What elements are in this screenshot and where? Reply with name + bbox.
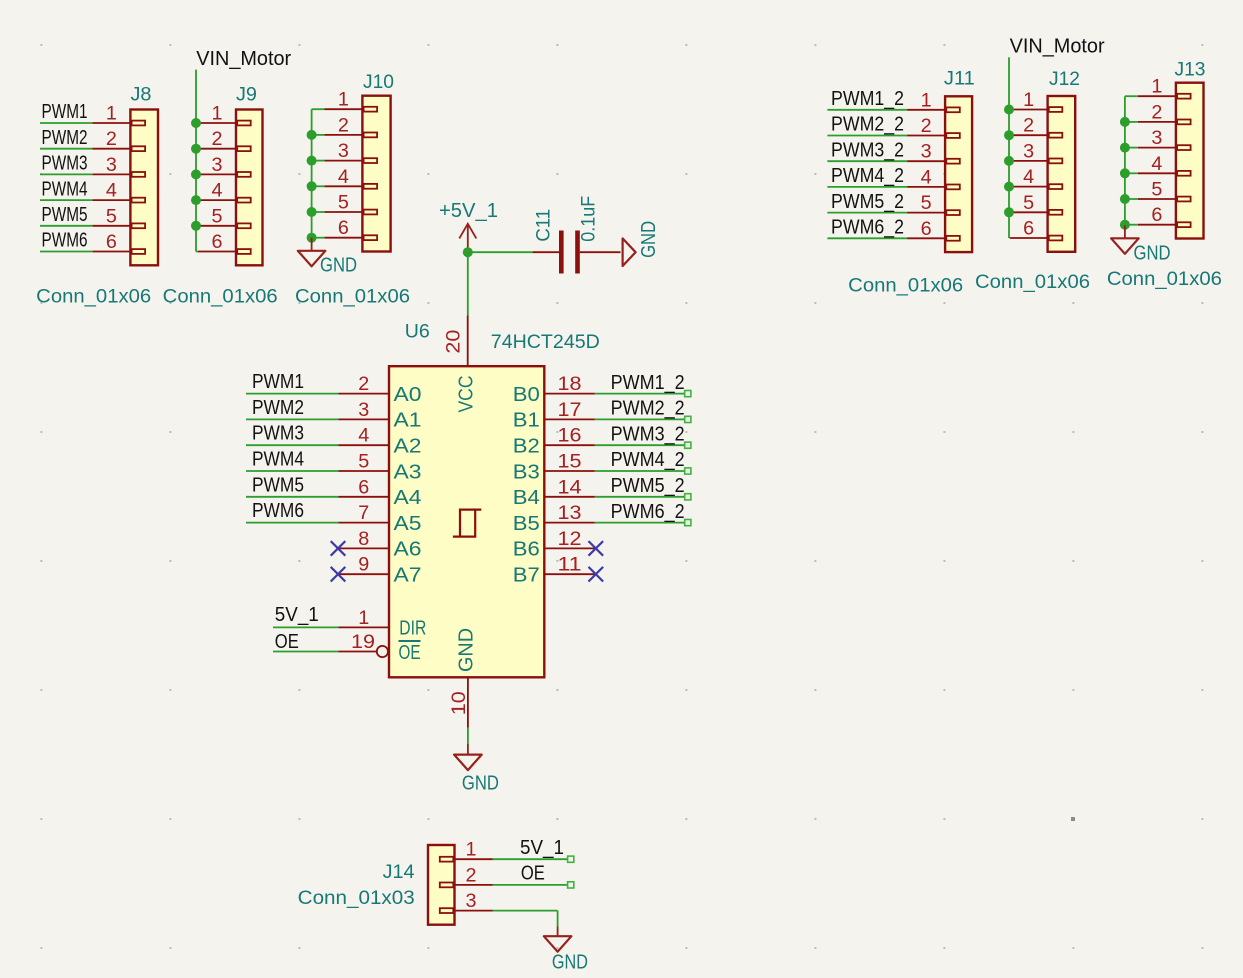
svg-text:VCC: VCC	[456, 376, 478, 413]
U6 pin 5 A3	[339, 452, 422, 484]
no-connect X on U6 pin 12	[589, 541, 604, 556]
connector J11 Conn_01x06	[848, 69, 975, 297]
svg-text:PWM2: PWM2	[42, 126, 88, 149]
no-connect X on U6 pin 11	[589, 567, 604, 582]
ground symbol below J14	[557, 927, 559, 937]
svg-text:6: 6	[106, 232, 117, 253]
svg-text:1: 1	[212, 104, 223, 125]
connector J10 Conn_01x06	[295, 72, 410, 308]
wire + net label PWM1_2 to J11 pin 1	[827, 87, 907, 110]
svg-text:5: 5	[921, 193, 932, 214]
svg-text:U6: U6	[405, 322, 430, 343]
U6 pin 3 A1	[339, 400, 422, 432]
connector J12 Conn_01x06	[975, 69, 1090, 293]
svg-text:1: 1	[1151, 77, 1162, 98]
svg-text:5V_1: 5V_1	[275, 603, 319, 626]
U6 pin 8 A6	[339, 529, 422, 561]
svg-text:1: 1	[106, 104, 117, 125]
svg-text:3: 3	[106, 155, 117, 176]
svg-text:A1: A1	[394, 410, 422, 432]
connector J13 Conn_01x06	[1107, 60, 1222, 291]
wire J14 pin 3 to ground	[493, 911, 558, 927]
wire + net label PWM3_2 from U6 B2	[595, 422, 691, 448]
svg-text:2: 2	[212, 129, 223, 150]
U6 pin 18 B0	[513, 374, 595, 406]
U6 pin 14 B4	[513, 477, 595, 509]
U6 pin 17 B1	[513, 400, 595, 432]
svg-text:PWM3_2: PWM3_2	[831, 138, 904, 161]
wire + net label PWM5 to J8 pin 5	[40, 203, 92, 226]
wire + net label 5V_1 from J14 pin 1	[493, 836, 574, 862]
svg-text:Conn_01x06: Conn_01x06	[848, 276, 963, 297]
wire + net label 5V_1 to U6 DIR	[273, 603, 339, 628]
svg-text:A3: A3	[394, 461, 422, 483]
svg-text:PWM5_2: PWM5_2	[611, 474, 685, 497]
svg-text:J12: J12	[1049, 69, 1080, 90]
svg-text:18: 18	[558, 374, 582, 395]
svg-text:Conn_01x06: Conn_01x06	[36, 287, 151, 308]
svg-text:OE: OE	[399, 642, 421, 664]
svg-text:VIN_Motor: VIN_Motor	[1010, 35, 1105, 58]
svg-text:2: 2	[1023, 116, 1034, 137]
svg-text:3: 3	[1151, 128, 1162, 149]
svg-text:B7: B7	[513, 565, 540, 587]
ground symbol below U6	[467, 744, 469, 755]
svg-text:PWM2_2: PWM2_2	[831, 113, 904, 136]
svg-text:Conn_01x06: Conn_01x06	[295, 287, 410, 308]
svg-text:A2: A2	[394, 436, 422, 458]
wire VIN_Motor vertical bus at J9	[195, 70, 197, 252]
svg-text:B4: B4	[513, 487, 540, 509]
connector J8 Conn_01x06	[36, 85, 158, 308]
svg-text:A7: A7	[394, 565, 422, 587]
wire + net label PWM2 to J8 pin 2	[40, 126, 92, 149]
wire + net label PWM4 to J8 pin 4	[40, 177, 92, 200]
svg-text:PWM5: PWM5	[252, 473, 304, 496]
svg-text:4: 4	[1151, 154, 1162, 175]
svg-text:5: 5	[1151, 180, 1162, 201]
wire + net label PWM6 to U6 A5	[246, 499, 339, 523]
svg-text:1: 1	[338, 90, 349, 111]
junction dots on VIN_Motor bus at J9 pins 1-5	[191, 118, 201, 231]
svg-text:PWM6: PWM6	[42, 229, 88, 252]
svg-text:J14: J14	[383, 862, 415, 883]
svg-text:J13: J13	[1175, 60, 1206, 81]
svg-text:1: 1	[358, 608, 369, 629]
IC U6 74HCT245D body	[389, 322, 600, 678]
svg-text:PWM3_2: PWM3_2	[611, 422, 685, 445]
svg-text:5: 5	[106, 206, 117, 227]
svg-text:PWM6_2: PWM6_2	[831, 216, 904, 239]
svg-text:PWM4_2: PWM4_2	[831, 164, 904, 187]
wire + net label PWM5_2 from U6 B4	[595, 474, 691, 500]
svg-text:8: 8	[358, 529, 369, 550]
wire + net label PWM2 to U6 A1	[246, 396, 339, 420]
svg-text:J9: J9	[236, 85, 257, 106]
svg-text:3: 3	[466, 891, 477, 912]
svg-text:5V_1: 5V_1	[520, 836, 564, 859]
svg-text:4: 4	[212, 181, 223, 202]
wire + net label PWM6 to J8 pin 6	[40, 229, 92, 252]
U6 pin 20 VCC	[443, 316, 477, 413]
ground symbol at J10	[311, 238, 313, 251]
U6 pin 13 B5	[513, 503, 595, 535]
svg-text:PWM3: PWM3	[252, 422, 304, 445]
svg-text:PWM2: PWM2	[252, 396, 304, 419]
svg-text:3: 3	[338, 141, 349, 162]
svg-text:C11: C11	[534, 209, 555, 242]
svg-text:PWM1_2: PWM1_2	[831, 87, 904, 110]
svg-text:15: 15	[558, 452, 582, 473]
svg-text:PWM5: PWM5	[42, 203, 88, 226]
svg-text:A0: A0	[394, 384, 422, 406]
svg-text:14: 14	[558, 477, 582, 498]
svg-text:VIN_Motor: VIN_Motor	[196, 47, 291, 70]
svg-text:6: 6	[358, 477, 369, 498]
U6 pin 9 A7	[339, 555, 422, 587]
svg-text:+5V_1: +5V_1	[439, 200, 498, 222]
connector J14 Conn_01x03	[298, 840, 493, 925]
svg-text:Conn_01x06: Conn_01x06	[975, 272, 1090, 293]
svg-text:A5: A5	[394, 513, 422, 535]
wire + net label PWM6_2 to J11 pin 6	[827, 216, 907, 239]
svg-text:6: 6	[338, 218, 349, 239]
wire +5V_1 node to C11	[468, 251, 533, 253]
junction dots at J13 pins 2-6	[1120, 117, 1130, 230]
ground symbol at J13	[1124, 225, 1126, 238]
svg-text:GND: GND	[320, 255, 357, 277]
junction dots at J10 pins 2-6	[307, 130, 317, 243]
svg-text:J11: J11	[944, 69, 975, 90]
svg-text:B5: B5	[513, 513, 540, 535]
svg-text:4: 4	[921, 167, 932, 188]
wire U6 GND pin to ground	[467, 728, 469, 744]
svg-text:B1: B1	[513, 410, 540, 432]
svg-text:7: 7	[358, 503, 369, 524]
svg-text:3: 3	[212, 155, 223, 176]
svg-text:2: 2	[921, 116, 932, 137]
svg-text:6: 6	[212, 232, 223, 253]
svg-text:PWM6: PWM6	[252, 499, 304, 522]
wire + net label OE to U6 pin 19	[273, 630, 339, 653]
svg-text:Conn_01x06: Conn_01x06	[163, 287, 278, 308]
svg-text:J8: J8	[131, 85, 152, 106]
wire + net label PWM4_2 to J11 pin 4	[827, 164, 907, 187]
svg-text:9: 9	[358, 555, 369, 576]
wire GND bus vertical at J13	[1125, 96, 1138, 225]
svg-text:PWM5_2: PWM5_2	[831, 190, 904, 213]
U6 pin 1 DIR	[339, 608, 427, 640]
svg-text:13: 13	[558, 503, 582, 524]
svg-text:12: 12	[558, 529, 582, 550]
svg-text:Conn_01x03: Conn_01x03	[298, 888, 415, 909]
svg-text:PWM6_2: PWM6_2	[611, 500, 685, 523]
svg-text:6: 6	[921, 219, 932, 240]
wire + net label PWM3 to J8 pin 3	[40, 152, 92, 175]
svg-text:6: 6	[1151, 205, 1162, 226]
svg-text:10: 10	[449, 691, 470, 715]
U6 pin 10 GND	[449, 628, 477, 728]
U6 pin 12 B6	[513, 529, 595, 561]
wire + net label PWM1 to U6 A0	[246, 370, 339, 394]
U6 pin 4 A2	[339, 426, 422, 458]
svg-text:PWM2_2: PWM2_2	[611, 397, 685, 420]
U6 pin 6 A4	[339, 477, 422, 509]
junction dots on VIN_Motor bus at J12 pins 1-5	[1004, 105, 1014, 218]
svg-text:B2: B2	[513, 436, 540, 458]
svg-text:OE: OE	[275, 630, 299, 653]
svg-text:5: 5	[358, 452, 369, 473]
svg-text:OE: OE	[521, 861, 545, 884]
svg-text:16: 16	[558, 426, 582, 447]
svg-text:19: 19	[351, 632, 375, 653]
wire + net label PWM2_2 from U6 B1	[595, 397, 691, 423]
svg-text:Conn_01x06: Conn_01x06	[1107, 269, 1222, 290]
svg-text:2: 2	[1151, 102, 1162, 123]
svg-text:11: 11	[558, 555, 582, 576]
svg-text:4: 4	[358, 426, 369, 447]
svg-text:1: 1	[466, 840, 477, 861]
capacitor C11 0.1uF	[533, 196, 621, 274]
svg-text:PWM4: PWM4	[42, 177, 88, 200]
svg-text:B6: B6	[513, 539, 540, 561]
svg-text:5: 5	[1023, 193, 1034, 214]
svg-text:PWM1_2: PWM1_2	[611, 371, 685, 394]
svg-text:GND: GND	[638, 221, 660, 258]
wire VIN_Motor vertical bus at J12	[1008, 57, 1010, 238]
svg-text:4: 4	[106, 181, 117, 202]
svg-text:A4: A4	[394, 487, 422, 509]
svg-text:DIR: DIR	[399, 618, 426, 640]
wire GND bus vertical at J10	[312, 109, 325, 238]
svg-text:B3: B3	[513, 461, 540, 483]
svg-text:5: 5	[212, 206, 223, 227]
svg-text:PWM3: PWM3	[42, 152, 88, 175]
wire + net label PWM1_2 from U6 B0	[595, 371, 691, 397]
svg-text:4: 4	[338, 167, 349, 188]
U6 pin 11 B7	[513, 555, 595, 587]
wire + net label PWM4 to U6 A3	[246, 448, 339, 472]
wire stub J9 pin6	[196, 251, 198, 253]
svg-text:20: 20	[443, 330, 464, 354]
svg-text:3: 3	[1023, 141, 1034, 162]
svg-text:74HCT245D: 74HCT245D	[491, 332, 600, 353]
svg-text:2: 2	[106, 129, 117, 150]
U6 pin 16 B2	[513, 426, 595, 458]
power symbol +5V_1	[439, 200, 498, 252]
wire + net label PWM2_2 to J11 pin 2	[827, 113, 907, 136]
svg-text:1: 1	[921, 90, 932, 111]
wire + net label PWM1 to J8 pin 1	[40, 100, 92, 123]
svg-text:0.1uF: 0.1uF	[579, 196, 600, 242]
svg-text:PWM4_2: PWM4_2	[611, 448, 685, 471]
svg-text:3: 3	[358, 400, 369, 421]
svg-text:2: 2	[358, 374, 369, 395]
wire + net label OE from J14 pin 2	[493, 861, 574, 888]
svg-text:PWM4: PWM4	[252, 448, 304, 471]
no-connect X on U6 pin 8	[331, 541, 346, 556]
ground symbol right of C11	[623, 221, 660, 266]
svg-text:1: 1	[1023, 90, 1034, 111]
wire + net label PWM6_2 from U6 B5	[595, 500, 691, 526]
wire + net label PWM4_2 from U6 B3	[595, 448, 691, 474]
wire + net label PWM5 to U6 A4	[246, 473, 339, 497]
svg-text:2: 2	[338, 115, 349, 136]
svg-text:PWM1: PWM1	[252, 370, 304, 393]
svg-text:A6: A6	[394, 539, 422, 561]
svg-text:GND: GND	[1134, 243, 1171, 265]
svg-text:GND: GND	[462, 773, 499, 795]
svg-text:2: 2	[466, 865, 477, 886]
svg-text:5: 5	[338, 193, 349, 214]
connector J9 Conn_01x06	[163, 85, 278, 308]
svg-text:GND: GND	[456, 628, 478, 672]
wire +5V_1 node down to U6 VCC	[467, 252, 469, 316]
svg-text:3: 3	[921, 142, 932, 163]
svg-text:B0: B0	[513, 384, 540, 406]
svg-text:6: 6	[1023, 219, 1034, 240]
svg-text:J10: J10	[363, 72, 394, 93]
wire + net label PWM3_2 to J11 pin 3	[827, 138, 907, 161]
U6 pin 2 A0	[339, 374, 422, 406]
U6 pin 15 B3	[513, 452, 595, 484]
no-connect X on U6 pin 9	[331, 567, 346, 582]
svg-text:GND: GND	[552, 952, 588, 974]
wire + net label PWM5_2 to J11 pin 5	[827, 190, 907, 213]
svg-text:PWM1: PWM1	[42, 100, 88, 123]
U6 pin 7 A5	[339, 503, 422, 535]
svg-text:17: 17	[558, 400, 582, 421]
junction dot at +5V_1 node	[463, 247, 473, 257]
wire + net label PWM3 to U6 A2	[246, 422, 339, 446]
svg-text:4: 4	[1023, 167, 1034, 188]
U6 pin 19 OE (inverted)	[339, 632, 421, 664]
